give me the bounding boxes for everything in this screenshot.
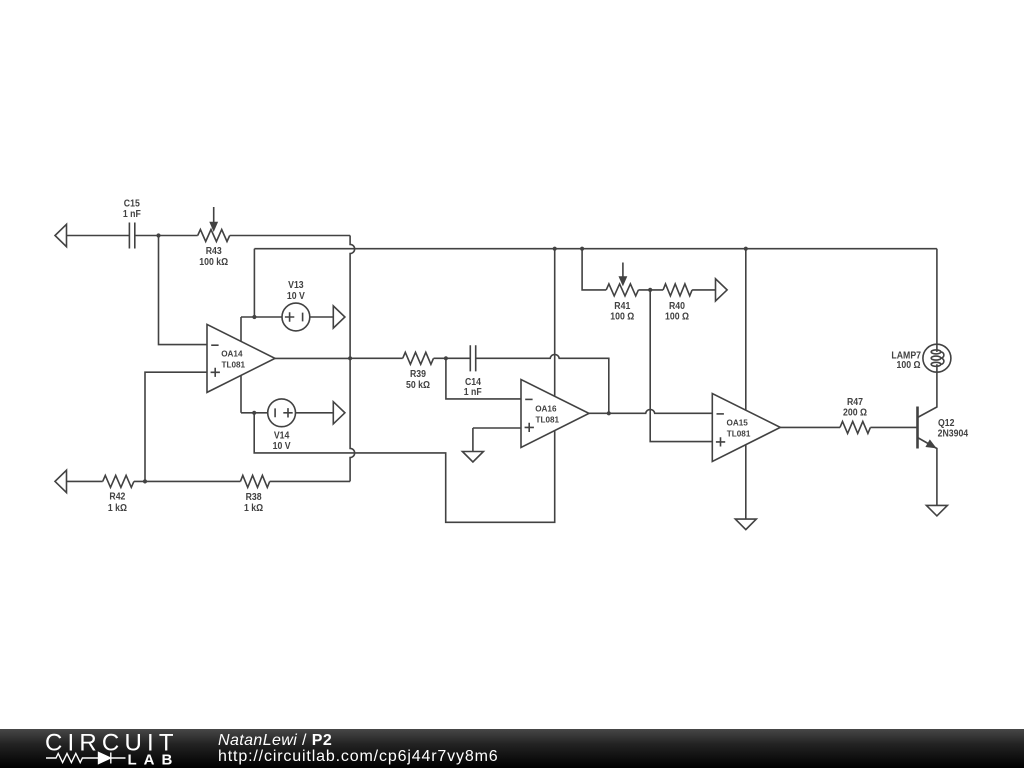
svg-text:V14: V14 (274, 430, 290, 441)
svg-text:Q12: Q12 (938, 417, 954, 428)
svg-text:1 nF: 1 nF (123, 209, 141, 220)
svg-text:R40: R40 (669, 300, 685, 311)
svg-text:R43: R43 (206, 246, 222, 257)
svg-text:OA16: OA16 (535, 403, 557, 413)
svg-text:50 kΩ: 50 kΩ (406, 380, 431, 391)
svg-text:OA14: OA14 (221, 348, 243, 358)
svg-text:1 kΩ: 1 kΩ (108, 503, 128, 514)
svg-text:LAB: LAB (128, 751, 180, 768)
svg-text:100 kΩ: 100 kΩ (199, 256, 228, 267)
svg-text:R39: R39 (410, 369, 426, 380)
svg-text:200 Ω: 200 Ω (843, 407, 868, 418)
svg-text:R42: R42 (109, 491, 125, 502)
svg-text:100 Ω: 100 Ω (897, 360, 922, 371)
svg-text:TL081: TL081 (727, 428, 751, 438)
svg-text:TL081: TL081 (222, 359, 246, 369)
svg-text:V13: V13 (288, 280, 304, 291)
svg-text:10 V: 10 V (273, 441, 292, 452)
svg-text:R41: R41 (614, 300, 630, 311)
svg-text:OA15: OA15 (727, 417, 749, 427)
svg-text:C15: C15 (124, 198, 140, 209)
svg-text:1 kΩ: 1 kΩ (244, 503, 264, 514)
svg-text:100 Ω: 100 Ω (665, 311, 690, 322)
svg-text:2N3904: 2N3904 (938, 428, 969, 439)
svg-text:TL081: TL081 (536, 414, 560, 424)
svg-text:R38: R38 (246, 491, 262, 502)
svg-text:1 nF: 1 nF (464, 387, 482, 398)
svg-text:100 Ω: 100 Ω (610, 311, 635, 322)
svg-text:R47: R47 (847, 397, 863, 408)
svg-text:10 V: 10 V (287, 290, 306, 301)
